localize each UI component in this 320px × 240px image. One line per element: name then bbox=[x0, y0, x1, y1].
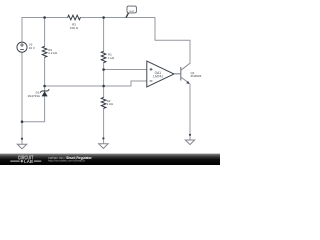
svg-text:out: out bbox=[130, 9, 134, 13]
svg-text:1 kΩ: 1 kΩ bbox=[108, 56, 115, 60]
svg-text:LM741: LM741 bbox=[153, 74, 163, 78]
svg-text:http://circuitlab.com/c8nwp2n: http://circuitlab.com/c8nwp2n bbox=[48, 159, 86, 163]
svg-text:1N4733A: 1N4733A bbox=[27, 94, 40, 98]
svg-text:10 V: 10 V bbox=[29, 46, 35, 50]
svg-text:100 Ω: 100 Ω bbox=[70, 26, 79, 30]
svg-text:2N3904: 2N3904 bbox=[191, 74, 202, 78]
svg-text:1 kΩ: 1 kΩ bbox=[107, 102, 114, 106]
svg-text:LAB: LAB bbox=[24, 159, 33, 164]
svg-text:2.2 kΩ: 2.2 kΩ bbox=[48, 51, 58, 55]
